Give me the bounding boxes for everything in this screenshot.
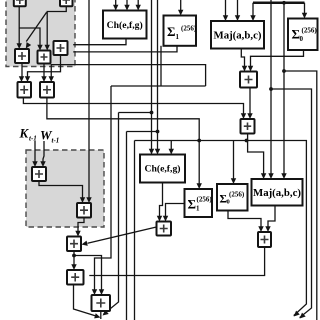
svg-text:Maj(a,b,c): Maj(a,b,c): [253, 187, 301, 199]
svg-text:t-1: t-1: [29, 135, 37, 143]
svg-text:Maj(a,b,c): Maj(a,b,c): [214, 30, 262, 42]
svg-text:0: 0: [300, 35, 304, 43]
svg-text:(256): (256): [302, 27, 318, 35]
svg-text:Σ: Σ: [167, 24, 176, 39]
svg-text:1: 1: [196, 205, 200, 213]
svg-text:Ch(e,f,g): Ch(e,f,g): [107, 20, 143, 31]
svg-text:t-1: t-1: [52, 137, 60, 145]
svg-text:(256): (256): [197, 196, 213, 204]
svg-text:(256): (256): [181, 25, 197, 33]
svg-text:0: 0: [227, 199, 230, 206]
svg-text:Σ: Σ: [188, 197, 197, 212]
svg-text:Ch(e,f,g): Ch(e,f,g): [144, 164, 180, 175]
svg-text:1: 1: [176, 33, 180, 41]
svg-text:(256): (256): [229, 191, 245, 199]
svg-text:K: K: [19, 126, 30, 141]
